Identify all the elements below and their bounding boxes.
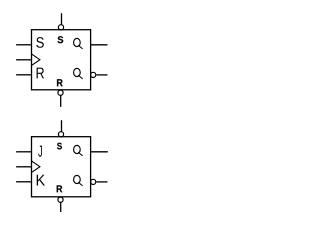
U2 clear bubble (active-low R) [58, 197, 63, 202]
wire U1 clock input [16, 59, 31, 61]
wire U2 clock input [16, 166, 31, 168]
U2 clear label R (bold) [57, 185, 63, 192]
U2 clock edge triangle [32, 161, 40, 172]
U1 clock edge triangle [32, 54, 40, 65]
wire U2 J input [16, 151, 31, 153]
wire U2 Q output [91, 151, 108, 153]
wire U1 Q output [91, 44, 108, 46]
U1 pin label S [36, 37, 44, 48]
U1 pin label R [37, 68, 44, 79]
wire U2 preset input [61, 120, 63, 132]
wire U2 K input [16, 181, 31, 183]
U2 pin label J [38, 146, 42, 157]
U2 preset bubble (active-low S) [58, 132, 63, 137]
wire U2 clear input [60, 202, 62, 212]
U1 pin label Q-bar [74, 68, 83, 79]
U1 clear bubble (active-low R) [58, 90, 63, 95]
flip-flop U2 (JK) body [32, 137, 91, 197]
U1 preset bubble (active-low S) [58, 25, 63, 30]
wire U1 preset input [61, 13, 63, 25]
U1 Q-bar bubble [91, 72, 96, 77]
wire U2 Q-bar output [96, 181, 107, 183]
wire U1 S input [16, 44, 31, 46]
wire U1 clear input [60, 95, 62, 107]
U2 pin label Q-bar [74, 175, 83, 186]
U1 clear label R (bold) [57, 79, 63, 86]
wire U1 R input [16, 74, 31, 76]
U1 pin label Q [74, 38, 83, 49]
U2 Q-bar bubble [91, 179, 96, 184]
U2 pin label K [37, 175, 45, 186]
flip-flop U1 (SR) body [32, 30, 91, 90]
U1 preset label S (bold) [58, 36, 64, 43]
U2 preset label S (bold) [57, 143, 62, 150]
wire U1 Q-bar output [96, 74, 107, 76]
U2 pin label Q [74, 145, 83, 156]
